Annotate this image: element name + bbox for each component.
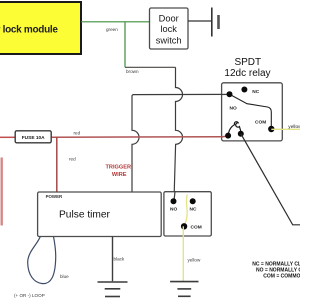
svg-text:COM: COM — [191, 225, 202, 231]
svg-text:12dc relay: 12dc relay — [224, 68, 270, 79]
svg-text:FUSE 10A: FUSE 10A — [22, 135, 45, 141]
svg-text:lock: lock — [160, 24, 177, 34]
svg-text:yellow: yellow — [288, 124, 300, 130]
svg-text:red: red — [74, 130, 81, 135]
svg-text:yellow: yellow — [188, 257, 201, 262]
svg-text:Door: Door — [159, 14, 179, 24]
svg-text:(+ OR -) LOOP: (+ OR -) LOOP — [14, 293, 45, 298]
svg-text:POWER: POWER — [46, 194, 63, 199]
svg-text:COM: COM — [255, 120, 266, 126]
svg-text:red: red — [69, 156, 76, 161]
svg-text:green: green — [106, 27, 118, 32]
svg-text:brown: brown — [126, 69, 139, 74]
svg-text:Door lock module: Door lock module — [0, 25, 58, 36]
svg-text:WIRE: WIRE — [112, 172, 127, 178]
svg-text:blue: blue — [60, 274, 69, 279]
svg-text:SPDT: SPDT — [234, 57, 261, 68]
svg-text:NO: NO — [230, 106, 237, 112]
svg-text:NC: NC — [252, 89, 259, 95]
svg-text:NO: NO — [170, 207, 177, 213]
svg-text:NC: NC — [190, 207, 197, 213]
svg-text:black: black — [114, 256, 125, 261]
svg-text:Pulse timer: Pulse timer — [59, 210, 111, 221]
svg-text:TRIGGER: TRIGGER — [106, 164, 131, 170]
svg-text:COM = COMMON: COM = COMMON — [263, 274, 300, 280]
svg-text:switch: switch — [156, 36, 182, 46]
